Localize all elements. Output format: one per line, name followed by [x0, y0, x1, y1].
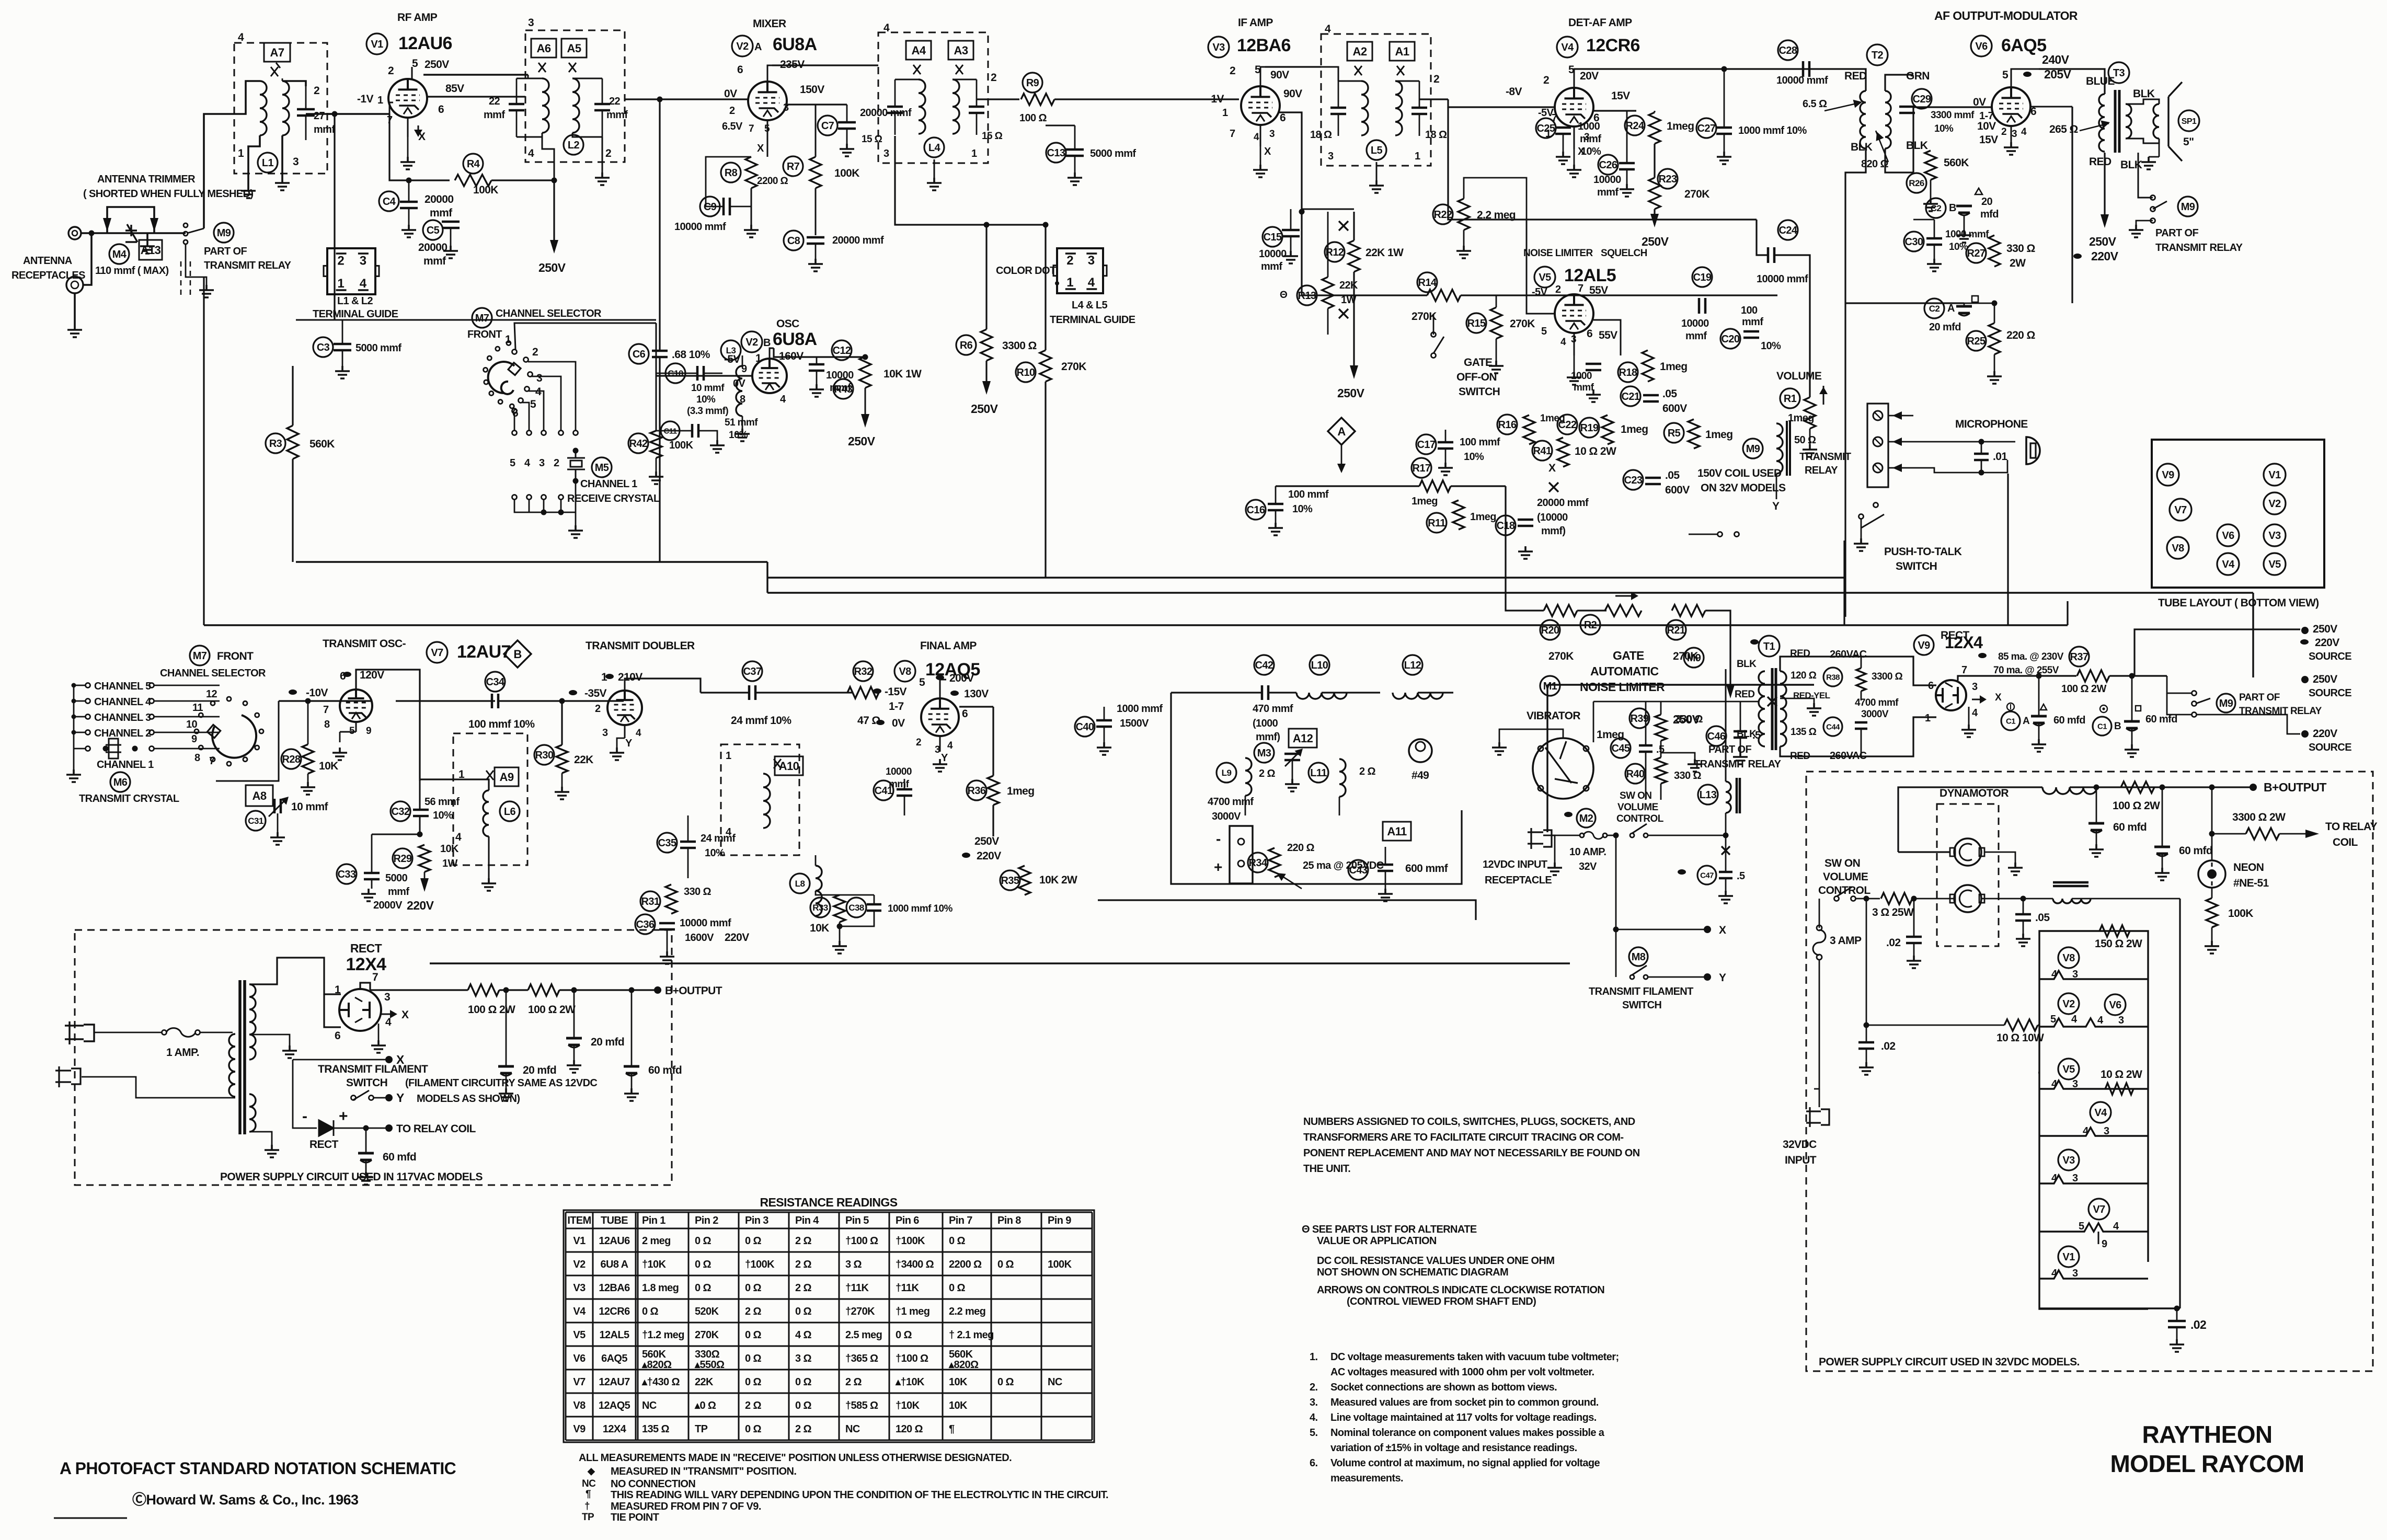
svg-text:INPUT: INPUT: [1785, 1154, 1817, 1166]
svg-text:520K: 520K: [695, 1306, 719, 1317]
svg-text:R33: R33: [812, 903, 828, 913]
svg-text:2 Ω: 2 Ω: [1359, 766, 1375, 777]
svg-text:A11: A11: [1387, 825, 1407, 838]
svg-text:10000 mmf: 10000 mmf: [674, 221, 726, 233]
svg-text:AC voltages measured with 100: AC voltages measured with 1000 ohm per v…: [1330, 1366, 1594, 1378]
svg-text:C32: C32: [392, 806, 410, 818]
svg-text:A12: A12: [1293, 732, 1313, 745]
svg-text:mmf): mmf): [1256, 731, 1280, 743]
svg-text:10000: 10000: [1259, 248, 1287, 260]
svg-text:150V COIL USED: 150V COIL USED: [1697, 467, 1782, 479]
svg-text:V2: V2: [2268, 498, 2281, 510]
svg-text:3300 Ω: 3300 Ω: [1872, 671, 1903, 682]
diamond node A: [1328, 418, 1355, 445]
svg-text:60 mfd: 60 mfd: [383, 1151, 416, 1163]
svg-text:mmf: mmf: [889, 779, 910, 790]
svg-text:C42: C42: [1255, 660, 1273, 671]
svg-text:3: 3: [1972, 681, 1978, 693]
svg-text:(10000: (10000: [1537, 512, 1568, 523]
svg-text:10000 mmf: 10000 mmf: [680, 917, 731, 929]
svg-text:+: +: [1214, 859, 1222, 875]
svg-text:mmf: mmf: [1685, 330, 1707, 342]
svg-text:TP: TP: [695, 1423, 708, 1435]
L10 coil: [1310, 655, 1329, 675]
svg-text:BLK: BLK: [1906, 140, 1928, 152]
svg-text:R4: R4: [467, 158, 480, 170]
svg-text:10%: 10%: [729, 430, 748, 441]
svg-text:C37: C37: [743, 666, 762, 677]
svg-text:B: B: [763, 337, 771, 349]
svg-text:12: 12: [206, 688, 217, 700]
svg-text:R32: R32: [854, 666, 873, 677]
coil L1 secondary: [282, 81, 289, 135]
svg-text:10: 10: [186, 719, 198, 730]
C47 .5: [1722, 846, 1730, 855]
svg-text:4: 4: [2051, 1078, 2058, 1090]
svg-text:M8: M8: [1632, 951, 1646, 963]
svg-text:COLOR DOT: COLOR DOT: [996, 265, 1056, 277]
svg-text:V7: V7: [431, 647, 443, 659]
svg-text:12X4: 12X4: [603, 1423, 627, 1435]
svg-text:C23: C23: [1624, 475, 1643, 486]
V3 heater: [2058, 1150, 2079, 1170]
svg-text:TUBE: TUBE: [601, 1215, 628, 1226]
svg-text:Pin 9: Pin 9: [1048, 1215, 1071, 1226]
svg-text:C17: C17: [1417, 439, 1436, 451]
L13 coil: [1698, 785, 1718, 805]
svg-text:6: 6: [962, 708, 968, 720]
svg-text:L13: L13: [1700, 789, 1717, 801]
wire bus B: [296, 561, 767, 562]
coil L1 primary: [260, 81, 267, 135]
T2 bottom rail wires: [1912, 107, 1914, 173]
svg-text:250V: 250V: [848, 434, 876, 448]
part of transmit relay label mid: [1684, 648, 1704, 668]
T1 center tap ground: [1780, 698, 1814, 703]
capacitor .02 heater bottom: [2168, 1321, 2186, 1327]
svg-text:47 Ω: 47 Ω: [857, 715, 880, 727]
svg-text:V3: V3: [573, 1282, 586, 1294]
svg-text:V4: V4: [2094, 1107, 2107, 1119]
svg-text:L9: L9: [1222, 768, 1232, 778]
svg-text:L1: L1: [262, 157, 274, 169]
svg-text:B+OUTPUT: B+OUTPUT: [665, 985, 722, 997]
selector contacts receive: [512, 350, 517, 354]
fuse M2 10 AMP: [1577, 809, 1596, 828]
svg-text:V9: V9: [2162, 469, 2174, 481]
svg-text:220V: 220V: [2091, 249, 2119, 263]
wire BLK to relay M9: [2138, 153, 2151, 188]
svg-text:SW ON: SW ON: [1824, 857, 1860, 869]
svg-text:0 Ω: 0 Ω: [745, 1423, 761, 1435]
svg-text:0 Ω: 0 Ω: [745, 1329, 761, 1341]
svg-text:4: 4: [2051, 1268, 2058, 1279]
svg-text:1000 mmf: 1000 mmf: [1117, 703, 1163, 715]
svg-text:Pin 4: Pin 4: [795, 1215, 819, 1226]
svg-text:2: 2: [1230, 65, 1235, 77]
fuse 3 AMP 32v: [1819, 898, 1837, 899]
svg-text:250V: 250V: [424, 59, 449, 71]
svg-text:R28: R28: [282, 754, 301, 765]
svg-text:.02: .02: [1881, 1040, 1895, 1052]
svg-text:TRANSMIT DOUBLER: TRANSMIT DOUBLER: [586, 640, 695, 652]
R36 1meg: [988, 776, 999, 805]
svg-text:CHANNEL SELECTOR: CHANNEL SELECTOR: [496, 308, 602, 319]
mic arrows: [1888, 415, 1913, 417]
resistor R42 100K: [628, 433, 648, 453]
svg-text:RECEPTACLES: RECEPTACLES: [12, 270, 85, 281]
R22 2.2meg: [1458, 199, 1470, 230]
svg-text:Y: Y: [625, 738, 633, 749]
svg-text:2W: 2W: [2010, 257, 2026, 269]
svg-text:†270K: †270K: [845, 1306, 875, 1317]
svg-text:L6: L6: [504, 806, 516, 818]
svg-text:A: A: [1947, 303, 1955, 314]
transformer L4 dashed box A4 A3: [878, 32, 988, 163]
svg-text:110 mmf ( MAX): 110 mmf ( MAX): [95, 265, 169, 277]
resistor 3300ohm 2W to relay coil: [2246, 828, 2279, 840]
svg-text:C25: C25: [1537, 123, 1555, 134]
svg-text:M6: M6: [113, 777, 128, 788]
svg-text:(FILAMENT CIRCUITRY SAME AS 12: (FILAMENT CIRCUITRY SAME AS 12VDC: [405, 1077, 597, 1089]
capacitor 60mfd psu117: [624, 1066, 639, 1073]
svg-text:GATE: GATE: [1464, 357, 1493, 369]
svg-text:3: 3: [1328, 151, 1334, 162]
svg-text:1meg: 1meg: [1007, 785, 1034, 797]
wire grid to V1: [327, 113, 389, 115]
svg-text:10000 mmf: 10000 mmf: [1757, 273, 1808, 285]
C15 10000mmf: [1263, 227, 1282, 247]
svg-text:270K: 270K: [1684, 188, 1709, 200]
svg-text:MODEL RAYCOM: MODEL RAYCOM: [2110, 1450, 2304, 1477]
svg-text:C2: C2: [1931, 203, 1942, 213]
svg-text:150V: 150V: [800, 84, 824, 96]
svg-text:2: 2: [1433, 73, 1439, 85]
svg-text:1meg: 1meg: [1667, 120, 1694, 132]
svg-text:B: B: [513, 648, 521, 661]
wire V6 plate to T3: [2039, 69, 2105, 94]
svg-text:AUTOMATIC: AUTOMATIC: [1590, 664, 1658, 678]
svg-text:(3.3 mmf): (3.3 mmf): [687, 406, 728, 417]
svg-text:M9: M9: [2219, 698, 2233, 709]
svg-text:6AQ5: 6AQ5: [2001, 36, 2046, 55]
svg-text:C20: C20: [1722, 334, 1740, 345]
svg-text:25 ma @ 205VDC: 25 ma @ 205VDC: [1303, 860, 1384, 871]
svg-text:R39: R39: [1631, 713, 1649, 725]
svg-text:12AU6: 12AU6: [398, 33, 452, 53]
svg-text:NC: NC: [845, 1423, 860, 1435]
svg-text:VALUE OR APPLICATION: VALUE OR APPLICATION: [1317, 1235, 1437, 1247]
svg-text:SOURCE: SOURCE: [2309, 742, 2351, 753]
R18 1meg: [1642, 350, 1654, 382]
svg-text:15 Ω: 15 Ω: [982, 131, 1003, 142]
capacitor 20mfd psu117 first: [498, 1066, 514, 1073]
squelch bus wires: [815, 235, 816, 236]
capacitor C3 5000mmf: [313, 337, 333, 357]
svg-text:Pin 1: Pin 1: [642, 1215, 665, 1226]
cap C10 10mmf: [665, 363, 685, 383]
M1 vibrator: [1540, 676, 1560, 696]
svg-text:NC: NC: [1048, 1376, 1062, 1388]
svg-text:R29: R29: [394, 853, 412, 865]
tube V2B osc 6U8A: [752, 359, 787, 393]
svg-text:C13: C13: [1047, 147, 1065, 159]
svg-text:POWER SUPPLY CIRCUIT USED IN 3: POWER SUPPLY CIRCUIT USED IN 32VDC MODEL…: [1819, 1356, 2080, 1368]
coil L4 secondary: [952, 79, 959, 134]
svg-text:R1: R1: [1784, 393, 1797, 405]
svg-text:R40: R40: [1626, 768, 1645, 780]
svg-text:0 Ω: 0 Ω: [896, 1329, 912, 1341]
svg-text:V3: V3: [2062, 1155, 2075, 1166]
svg-text:L1 & L2: L1 & L2: [337, 295, 373, 307]
svg-text:4: 4: [1325, 23, 1331, 35]
svg-text:0V: 0V: [724, 88, 737, 100]
AC plug upper: [65, 1021, 94, 1044]
R19 1meg: [1602, 415, 1613, 444]
svg-text:RED: RED: [2089, 156, 2111, 168]
svg-text:Measured values are from socke: Measured values are from socket pin to c…: [1330, 1397, 1599, 1408]
svg-text:Volume control at maximum, no: Volume control at maximum, no signal app…: [1330, 1457, 1600, 1469]
svg-text:560K: 560K: [309, 438, 335, 450]
svg-text:2 Ω: 2 Ω: [745, 1400, 761, 1411]
svg-text:10V: 10V: [1977, 120, 1996, 132]
svg-text:250V: 250V: [971, 402, 999, 416]
svg-text:560K: 560K: [949, 1349, 973, 1360]
svg-text:TUBE LAYOUT ( BOTTOM VIEW): TUBE LAYOUT ( BOTTOM VIEW): [2158, 597, 2319, 609]
32VDC input plug: [1806, 1107, 1829, 1127]
V7A wires: [356, 670, 420, 781]
dynamotor generator: [1954, 838, 1981, 866]
speaker SP1: [2153, 104, 2159, 139]
R38 3300 ohm: [1823, 668, 1842, 686]
T3 secondary return: [2104, 153, 2105, 188]
svg-text:.05: .05: [2035, 912, 2050, 924]
svg-text:5000: 5000: [385, 872, 408, 884]
svg-text:variation of ±15% in voltage a: variation of ±15% in voltage and resista…: [1330, 1442, 1577, 1454]
crystal M5 receive: [573, 448, 579, 454]
wires L1: [234, 81, 260, 114]
AC plug lower: [55, 1066, 81, 1087]
coil L5 secondary: [1395, 81, 1402, 135]
coil L3: [736, 366, 742, 416]
svg-text:RECEPTACLE: RECEPTACLE: [1485, 875, 1552, 886]
svg-text:3 Ω: 3 Ω: [845, 1259, 862, 1270]
svg-text:NOISE LIMITER: NOISE LIMITER: [1523, 248, 1593, 259]
svg-text:22: 22: [489, 96, 500, 107]
svg-text:60 mfd: 60 mfd: [2179, 845, 2212, 857]
svg-text:mmf: mmf: [1742, 316, 1763, 328]
svg-text:5: 5: [510, 457, 515, 469]
svg-text:5: 5: [412, 58, 418, 70]
svg-text:C8: C8: [787, 235, 800, 247]
svg-text:12AL5: 12AL5: [1564, 266, 1616, 285]
svg-text:1000: 1000: [1571, 371, 1592, 382]
svg-text:4 Ω: 4 Ω: [795, 1329, 811, 1341]
svg-text:1-7: 1-7: [889, 700, 904, 712]
svg-text:OFF-ON: OFF-ON: [1456, 371, 1497, 383]
C38 1000mmf: [846, 898, 866, 917]
svg-text:R6: R6: [960, 340, 973, 351]
svg-text:4: 4: [524, 457, 531, 469]
svg-text:R8: R8: [725, 167, 738, 179]
svg-text:4: 4: [2051, 969, 2058, 980]
svg-text:12BA6: 12BA6: [599, 1282, 630, 1294]
svg-text:C4: C4: [383, 196, 396, 208]
svg-text:6.: 6.: [1310, 1457, 1318, 1469]
svg-text:▴†430 Ω: ▴†430 Ω: [641, 1376, 680, 1388]
R26 560K: [1925, 151, 1936, 180]
channel selector transmit M7: [190, 646, 210, 665]
svg-text:V8: V8: [899, 666, 911, 677]
wire left edge down: [203, 277, 204, 625]
svg-text:3000V: 3000V: [1861, 709, 1889, 720]
svg-text:V1: V1: [573, 1235, 586, 1247]
svg-text:2 Ω: 2 Ω: [795, 1259, 811, 1270]
svg-text:60 mfd: 60 mfd: [648, 1064, 682, 1076]
svg-text:10K 2W: 10K 2W: [1039, 874, 1077, 886]
svg-text:10K: 10K: [810, 922, 829, 934]
svg-text:L4 & L5: L4 & L5: [1072, 300, 1108, 311]
svg-text:FRONT: FRONT: [467, 329, 502, 340]
svg-text:10000 mmf: 10000 mmf: [1776, 75, 1828, 86]
C42 470mmf: [1254, 655, 1274, 675]
svg-text:ⒸHoward W. Sams & Co., In: ⒸHoward W. Sams & Co., Inc. 1963: [132, 1491, 359, 1508]
svg-text:R10: R10: [1017, 367, 1035, 378]
tube V5 12AL5: [1555, 294, 1593, 333]
wire selector to grid rail: [216, 701, 279, 781]
svg-text:3: 3: [539, 457, 545, 469]
svg-text:20000 mmf: 20000 mmf: [832, 235, 884, 246]
svg-text:M7: M7: [475, 313, 489, 324]
svg-text:5: 5: [1541, 326, 1547, 337]
L11 coil: [1309, 763, 1328, 783]
svg-text:6: 6: [737, 64, 743, 76]
antenna trimmer M4 A13: [107, 207, 154, 233]
svg-text:L12: L12: [1404, 660, 1421, 671]
svg-text:3: 3: [2072, 969, 2078, 980]
svg-text:2: 2: [1066, 254, 1073, 268]
svg-text:R3: R3: [269, 438, 282, 450]
svg-text:12CR6: 12CR6: [1586, 36, 1640, 55]
V7 heater: [2088, 1199, 2109, 1220]
svg-text:12X4: 12X4: [346, 955, 386, 974]
svg-text:DC COIL RESISTANCE VALUES UNDE: DC COIL RESISTANCE VALUES UNDER ONE OHM: [1317, 1255, 1554, 1267]
cap C6 .68: [629, 344, 649, 364]
R34 220: [1269, 848, 1280, 877]
svg-text:†585 Ω: †585 Ω: [845, 1400, 878, 1411]
svg-text:R38: R38: [1826, 673, 1840, 682]
svg-text:2: 2: [554, 457, 559, 469]
svg-text:120 Ω: 120 Ω: [896, 1423, 923, 1435]
svg-text:mmf: mmf: [423, 255, 446, 267]
svg-text:12VDC INPUT: 12VDC INPUT: [1483, 859, 1547, 870]
svg-text:3: 3: [360, 254, 366, 268]
svg-text:3: 3: [384, 991, 390, 1003]
tube layout box: [2152, 440, 2324, 588]
svg-text:10000: 10000: [1681, 318, 1709, 329]
svg-text:15 Ω: 15 Ω: [862, 134, 882, 145]
svg-text:2 Ω: 2 Ω: [1259, 768, 1275, 779]
svg-text:T2: T2: [1872, 50, 1884, 61]
svg-text:1: 1: [505, 334, 511, 346]
dynamotor motor rail right: [1981, 898, 2023, 900]
svg-text:PART OF: PART OF: [2155, 227, 2198, 239]
svg-text:R35: R35: [1001, 875, 1019, 887]
svg-text:†1.2 meg: †1.2 meg: [642, 1329, 684, 1341]
svg-text:100 Ω: 100 Ω: [1019, 112, 1047, 124]
svg-text:85V: 85V: [445, 83, 464, 95]
svg-text:4: 4: [1254, 132, 1259, 143]
svg-text:Line voltage maintained at 117: Line voltage maintained at 117 volts for…: [1330, 1412, 1597, 1423]
svg-text:12BA6: 12BA6: [1237, 36, 1291, 55]
svg-text:10%: 10%: [1934, 123, 1954, 134]
svg-text:R36: R36: [968, 785, 986, 797]
svg-text:TO RELAY: TO RELAY: [2325, 821, 2378, 833]
svg-text:220V: 220V: [2313, 728, 2337, 740]
transformer T1: [1759, 636, 1780, 657]
svg-text:RAYTHEON: RAYTHEON: [2142, 1421, 2272, 1448]
svg-text:PART OF: PART OF: [2239, 692, 2280, 703]
svg-text:250V: 250V: [538, 261, 566, 274]
svg-text:measurements.: measurements.: [1330, 1473, 1403, 1484]
svg-text:0 Ω: 0 Ω: [695, 1282, 711, 1294]
C17 100mmf 10%: [1416, 434, 1436, 454]
svg-text:†100K: †100K: [896, 1235, 925, 1247]
wire grid bus down: [1448, 107, 1527, 220]
wire plate to L2 box: [427, 96, 525, 97]
svg-text:POWER SUPPLY CIRCUIT USED IN 1: POWER SUPPLY CIRCUIT USED IN 117VAC MODE…: [220, 1171, 483, 1183]
svg-text:270K: 270K: [1411, 311, 1437, 323]
R6 3300: [895, 136, 1046, 225]
svg-text:4: 4: [1560, 337, 1566, 348]
C18 20000mmf: [1496, 515, 1516, 535]
svg-text:†10K: †10K: [642, 1259, 667, 1270]
wire L5 to V4: [1448, 99, 1555, 107]
svg-text:1: 1: [1222, 107, 1228, 119]
relay contact switch bottom: [1718, 532, 1723, 537]
svg-text:3: 3: [783, 102, 789, 113]
svg-text:AF OUTPUT-MODULATOR: AF OUTPUT-MODULATOR: [1934, 9, 2078, 22]
svg-text:C33: C33: [338, 869, 356, 880]
svg-text:V6: V6: [1975, 41, 1988, 52]
svg-text:55V: 55V: [1599, 329, 1617, 341]
svg-text:▴550Ω: ▴550Ω: [694, 1359, 725, 1371]
svg-text:IF AMP: IF AMP: [1238, 17, 1273, 29]
resistor 100K psu32: [2206, 898, 2218, 927]
C35 24mmf: [657, 833, 677, 853]
svg-text:R41: R41: [1533, 445, 1552, 457]
svg-text:MEASURED IN "TRANSMIT" POSITIO: MEASURED IN "TRANSMIT" POSITION.: [611, 1466, 796, 1477]
svg-text:¶: ¶: [586, 1489, 591, 1500]
svg-text:ITEM: ITEM: [567, 1215, 591, 1226]
svg-text:TRANSMIT OSC-: TRANSMIT OSC-: [323, 638, 406, 650]
X node mark: [1549, 482, 1558, 492]
svg-text:2 meg: 2 meg: [642, 1235, 671, 1247]
svg-text:NC: NC: [642, 1400, 657, 1411]
svg-text:3300 Ω: 3300 Ω: [1002, 340, 1037, 352]
svg-text:15V: 15V: [1611, 90, 1630, 102]
svg-text:C29: C29: [1913, 94, 1931, 105]
selector output line: [514, 323, 656, 349]
svg-text:250V: 250V: [974, 835, 999, 847]
svg-text:1: 1: [971, 148, 977, 159]
dynamotor motor: [1954, 885, 1981, 912]
svg-text:mmf: mmf: [430, 207, 453, 219]
svg-text:T3: T3: [2113, 67, 2125, 79]
svg-text:X: X: [1264, 146, 1271, 157]
svg-text:C1: C1: [2097, 722, 2107, 731]
svg-text:Pin 6: Pin 6: [896, 1215, 919, 1226]
